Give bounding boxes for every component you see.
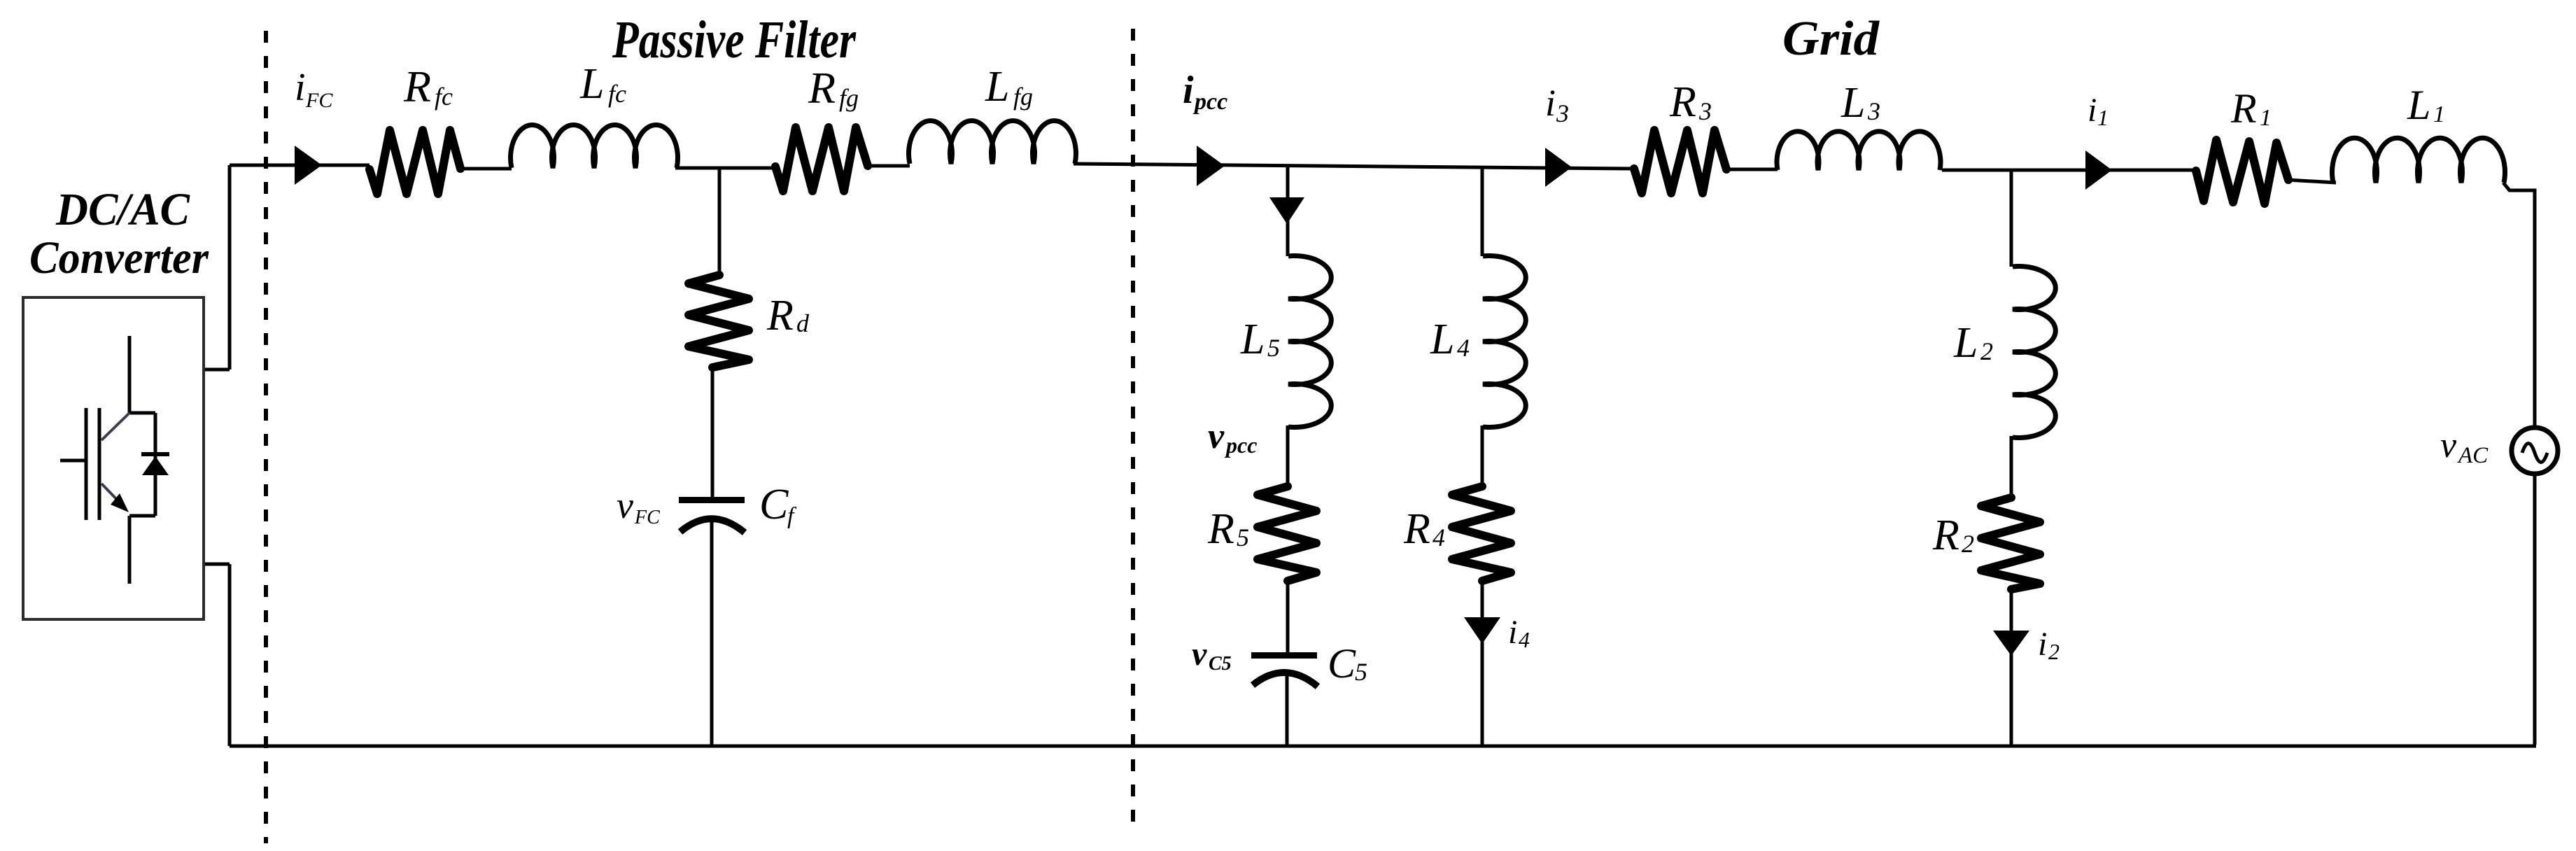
resistor Rd [689,275,749,367]
svg-text:pcc: pcc [1224,432,1257,458]
svg-text:Converter: Converter [29,232,209,283]
svg-text:C: C [759,481,789,528]
resistor Rfc [369,130,460,194]
wire top rail between Rfg and Lfg [867,164,910,168]
svg-text:v: v [2440,425,2457,465]
inductor Lfc [511,125,678,168]
transistor IGBT collector angled line [101,413,129,440]
svg-text:fg: fg [1013,83,1033,111]
svg-text:Passive Filter: Passive Filter [612,10,857,69]
wire R4 to i4 arrow and bottom rail [1481,579,1484,746]
svg-text:fc: fc [608,80,626,108]
svg-text:AC: AC [2457,443,2489,468]
DC/AC converter box [23,297,204,619]
node A vertical wire to Rd [718,167,722,275]
capacitor C5 top plate [1251,652,1317,659]
svg-text:v: v [1208,416,1225,456]
wire L5 to R5 [1286,425,1290,486]
svg-text:i: i [295,66,306,109]
wire collector to diode top [129,413,155,516]
svg-text:i: i [1183,69,1194,112]
svg-text:R: R [1207,505,1234,553]
svg-text:i: i [2088,92,2097,129]
svg-text:R: R [766,292,794,339]
svg-text:L: L [579,60,604,108]
resistor Rfg [775,127,868,191]
wire top right corner to vAC [2503,183,2535,430]
arrow node B down [1269,197,1304,224]
inductor L5 [1288,256,1331,428]
voltage source vAC sine [2522,444,2547,463]
svg-text:C: C [1328,640,1356,687]
svg-text:1: 1 [2433,101,2445,127]
svg-text:2: 2 [1962,530,1974,558]
resistor R5 [1258,486,1316,581]
svg-text:L: L [1430,316,1454,363]
svg-text:pcc: pcc [1192,89,1227,115]
inductor Lfg [908,121,1076,164]
svg-text:f: f [787,503,797,529]
svg-text:L: L [1240,316,1265,363]
transistor IGBT gate bar 1 [85,408,88,520]
svg-text:2: 2 [1980,337,1993,365]
svg-text:3: 3 [1698,97,1712,125]
transistor IGBT emitter arrowhead [111,493,129,512]
svg-text:fg: fg [839,84,859,112]
svg-text:DC/AC: DC/AC [55,184,190,235]
svg-text:d: d [796,309,810,337]
wire top rail between R1 and L1 [2288,180,2336,183]
svg-text:5: 5 [1267,334,1280,362]
svg-text:R: R [1669,78,1696,126]
inductor L1 [2332,138,2505,183]
wire top rail between Rfc and Lfc [460,167,512,171]
wire converter top stub [204,165,230,370]
inductor L4 [1483,256,1526,428]
svg-text:2: 2 [2048,639,2060,664]
resistor R4 [1452,486,1511,581]
svg-text:4: 4 [1519,627,1530,652]
capacitor Cf top plate [679,497,745,503]
resistor R3 [1634,130,1726,193]
svg-text:L: L [2407,82,2430,128]
svg-text:R: R [808,63,836,113]
wire vAC to bottom rail [2533,472,2537,745]
wire L2 to R2 [2010,436,2013,498]
dashed boundary line right [1131,29,1135,834]
svg-text:i: i [2038,626,2047,663]
transistor IGBT gate lead [60,459,85,463]
inductor L3 [1777,132,1941,170]
inductor L2 [2013,267,2055,438]
wire L4 to R4 [1481,425,1484,486]
svg-text:L: L [1953,319,1978,367]
diode triangle [142,456,169,475]
wire top rail between R3 and L3 [1726,168,1778,171]
wire R2 to i2 arrow and bottom rail [2010,588,2013,746]
svg-text:L: L [1840,79,1865,127]
svg-text:FC: FC [305,89,333,112]
wire R5 to C5 [1286,579,1290,653]
resistor R1 [2196,140,2288,204]
transistor IGBT emitter angled line [101,484,120,503]
node B vertical wire to L5 [1286,164,1290,256]
wire emitter bottom [129,516,155,584]
wire C5 to bottom rail [1286,672,1289,746]
arrow i1 [2085,150,2112,190]
wire top rail Lfg to R3 [1074,164,1635,169]
svg-text:3: 3 [1867,97,1880,125]
dashed boundary line left [264,31,268,843]
svg-text:R: R [2230,85,2257,132]
svg-text:4: 4 [1457,334,1470,362]
capacitor C5 curved plate [1253,673,1318,687]
wire converter bottom stub [204,564,230,746]
svg-text:FC: FC [634,507,660,528]
wire top rail between L3 and R1 [1942,169,2197,172]
wire Rd to Cf [711,366,715,498]
arrow iFC [295,146,322,185]
wire bottom rail [230,745,2536,748]
wire Cf to bottom rail [710,518,714,746]
svg-text:v: v [1192,635,1207,673]
resistor R2 [1981,498,2040,589]
arrow ipcc [1197,146,1225,186]
svg-text:R: R [1932,512,1959,559]
wire top rail segment left [230,164,369,167]
voltage source vAC circle [2512,428,2558,474]
transistor IGBT gate bar 2 [98,408,101,520]
svg-text:3: 3 [1556,99,1569,127]
svg-text:1: 1 [2097,105,2109,130]
svg-text:4: 4 [1433,523,1445,551]
arrow i2 down [1993,631,2029,656]
svg-text:L: L [985,63,1009,111]
diode cathode bar [141,452,169,456]
arrow i3 [1545,148,1572,187]
svg-text:C5: C5 [1209,653,1232,675]
svg-text:fc: fc [435,83,453,111]
svg-text:R: R [403,62,431,111]
transistor IGBT collector wire [128,336,132,413]
svg-text:Grid: Grid [1782,12,1880,66]
svg-text:5: 5 [1355,658,1367,686]
wire top rail between Lfc and Rfg [675,167,776,170]
svg-text:i: i [1508,614,1517,651]
svg-text:v: v [617,484,633,526]
capacitor Cf curved plate [680,519,745,533]
svg-text:5: 5 [1237,523,1249,551]
arrow i4 down [1464,617,1500,644]
svg-text:i: i [1545,82,1556,124]
svg-text:1: 1 [2260,105,2272,131]
node C vertical wire to L4 [1481,167,1484,256]
svg-text:R: R [1403,505,1430,553]
node D vertical wire to L2 [2010,169,2013,267]
